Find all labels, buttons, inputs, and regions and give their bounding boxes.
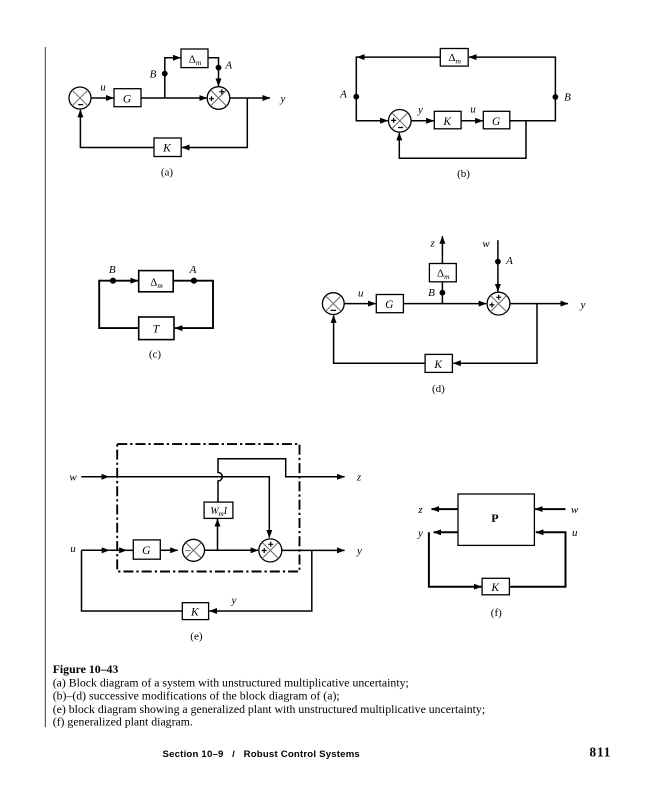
svg-text:u: u — [572, 527, 578, 539]
wire G to summing junction 2 diagram (a) — [141, 97, 207, 99]
svg-text:y: y — [580, 299, 586, 311]
node B dot diagram (d) — [440, 290, 446, 296]
wire u into plant with two arrows diagram (e) — [82, 549, 134, 551]
summing junction 2 of (d) with plus signs — [487, 292, 510, 315]
svg-text:z: z — [356, 472, 362, 484]
wire K back to summing junction 1 diagram (d) — [334, 315, 426, 363]
dash-dot generalized plant boundary diagram (e) — [117, 444, 299, 571]
node A dot diagram (c) — [191, 278, 197, 284]
wire feedback down to K diagram (e) — [209, 550, 311, 611]
wire feedback down to K diagram (a) — [182, 98, 247, 148]
block Delta_m diagram (c) — [139, 271, 174, 292]
wire down through node A to summing junction diagram (b) — [356, 56, 387, 120]
svg-text:G: G — [142, 545, 151, 557]
wire junction1 to junction2 diagram (e) — [205, 549, 259, 551]
wire feedback down to K diagram (d) — [453, 304, 537, 364]
wire G to junction 1 diagram (e) — [160, 549, 178, 551]
svg-text:u: u — [100, 82, 106, 94]
wire WmI output with hop over w line out to z diagram (e) — [218, 459, 345, 502]
svg-text:G: G — [385, 299, 394, 311]
node A dot diagram (a) — [216, 65, 222, 71]
svg-text:K: K — [442, 116, 452, 128]
block Delta_m diagram (a) — [181, 49, 208, 68]
svg-text:w: w — [571, 504, 579, 516]
wire branch node B up to Delta_m diagram (a) — [165, 58, 181, 98]
svg-text:(c): (c) — [149, 349, 162, 361]
wire K back around to u diagram (e) — [82, 550, 183, 611]
left margin rule — [44, 47, 46, 727]
svg-text:u: u — [358, 288, 364, 300]
wire output y diagram (e) — [282, 549, 345, 551]
svg-text:(a): (a) — [161, 166, 174, 178]
svg-text:A: A — [224, 60, 232, 72]
svg-text:P: P — [491, 511, 498, 525]
wire branch node B up to Delta_m diagram (d) — [441, 282, 443, 303]
summing junction 1 of (a) with minus sign — [69, 87, 91, 109]
svg-text:K: K — [433, 359, 443, 371]
node B dot diagram (c) — [110, 278, 116, 284]
wire G output up through node B to Delta_m diagram (b) — [469, 57, 556, 121]
multiply junction 1 of (e) with minus sign — [183, 539, 205, 561]
svg-text:G: G — [123, 93, 132, 105]
block K diagram (a) — [154, 138, 181, 157]
svg-text:(f) generalized plant diagram.: (f) generalized plant diagram. — [53, 714, 193, 728]
wire y down to K diagram (f) — [429, 532, 482, 586]
svg-text:(e): (e) — [190, 630, 203, 642]
wire w into plant diagram (e) — [81, 477, 269, 538]
wire w input diagram (f) — [535, 508, 565, 510]
svg-text:(f): (f) — [491, 607, 502, 619]
svg-text:A: A — [339, 88, 347, 100]
wire output y diagram (d) — [510, 303, 568, 305]
svg-text:A: A — [505, 255, 513, 267]
summing junction of (b) with plus and minus — [389, 110, 412, 133]
block G diagram (a) — [114, 89, 141, 107]
wire summing junction to K diagram (b) — [411, 120, 434, 122]
wire G to summing junction 2 diagram (d) — [403, 303, 486, 305]
svg-text:B: B — [428, 287, 435, 299]
block K diagram (b) — [434, 111, 461, 129]
svg-text:K: K — [190, 607, 200, 619]
svg-text:G: G — [492, 116, 501, 128]
block WmI diagram (e) — [204, 502, 233, 518]
svg-text:y: y — [417, 104, 423, 116]
block G diagram (d) — [376, 295, 403, 313]
block T diagram (c) — [139, 317, 174, 340]
wire feedback loop of (b) — [399, 121, 526, 158]
wire output y diagram (a) — [230, 97, 270, 99]
svg-text:z: z — [429, 237, 435, 249]
svg-text:K: K — [490, 582, 500, 594]
block Delta_m diagram (d) — [429, 264, 456, 282]
svg-text:w: w — [482, 238, 490, 250]
summing junction 1 of (d) with minus sign — [322, 293, 344, 315]
node A dot diagram (b) — [353, 94, 359, 100]
wire Delta_m up to z diagram (d) — [441, 236, 443, 263]
svg-text:811: 811 — [590, 745, 612, 760]
wire K up to u into P diagram (f) — [509, 532, 565, 586]
svg-text:(b)–(d) successive modificatio: (b)–(d) successive modifications of the … — [53, 689, 340, 703]
svg-text:z: z — [417, 504, 423, 516]
svg-text:u: u — [470, 103, 476, 115]
wire K back up to summing junction 1 diagram (a) — [80, 110, 154, 148]
summing junction 2 of (a) with plus signs — [207, 87, 230, 110]
running footer — [163, 745, 612, 761]
figure caption block — [53, 662, 485, 728]
svg-text:K: K — [162, 143, 172, 155]
wire into Delta_m diagram (c) — [99, 280, 138, 282]
wire Delta_m output leftward with arrow diagram (b) — [357, 56, 440, 58]
wire branch up into WmI diagram (e) — [217, 519, 219, 550]
wire Delta_m to summing junction 2 diagram (a) — [208, 58, 219, 86]
svg-text:(b): (b) — [457, 168, 470, 180]
svg-text:u: u — [70, 543, 76, 555]
wire Delta_m around to T diagram (c) — [173, 281, 213, 328]
svg-text:B: B — [109, 264, 116, 276]
node B dot diagram (b) — [553, 94, 559, 100]
node B dot diagram (a) — [162, 71, 168, 77]
wire K to G diagram (b) — [461, 120, 483, 122]
svg-text:(a) Block diagram of a system: (a) Block diagram of a system with unstr… — [53, 675, 409, 689]
svg-text:w: w — [69, 472, 77, 484]
summing junction 2 of (e) with plus signs — [259, 539, 282, 562]
wire T output back to node B diagram (c) — [99, 280, 139, 328]
block K diagram (f) — [482, 578, 509, 595]
wire junction1 to G with arrow, diagram (a) — [91, 97, 114, 99]
svg-text:B: B — [564, 92, 571, 104]
block K diagram (e) — [182, 603, 208, 620]
svg-text:A: A — [189, 264, 197, 276]
block P generalized plant diagram (f) — [458, 494, 534, 545]
svg-text:(d): (d) — [432, 383, 445, 395]
wire junction1 to G diagram (d) — [344, 303, 376, 305]
svg-text:B: B — [150, 68, 157, 80]
wire w down through node A into summing junction 2 diagram (d) — [497, 240, 499, 291]
svg-text:Figure 10–43: Figure 10–43 — [53, 662, 119, 676]
svg-text:y: y — [280, 93, 286, 105]
svg-text:y: y — [417, 527, 423, 539]
wire y output diagram (f) — [434, 531, 458, 533]
wire z output diagram (f) — [432, 508, 459, 510]
node A dot diagram (d) — [495, 259, 501, 265]
svg-text:Section 10–9 / Robust Cont: Section 10–9 / Robust Control Systems — [163, 749, 360, 760]
svg-text:y: y — [231, 594, 237, 606]
svg-text:y: y — [356, 545, 362, 557]
block G diagram (e) — [133, 540, 160, 559]
block Delta_m diagram (b) — [440, 49, 468, 67]
block K diagram (d) — [425, 354, 452, 372]
block G diagram (b) — [483, 111, 510, 129]
